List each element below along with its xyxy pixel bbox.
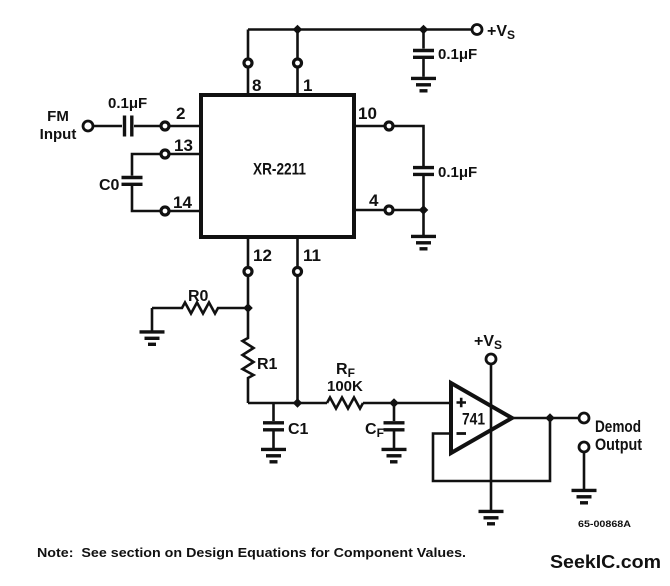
capacitor 0.1uF input coupling: [125, 116, 132, 137]
pin label 14: [173, 193, 192, 212]
resistor R1: [243, 308, 254, 403]
label +Vs top right: [487, 23, 515, 42]
pin label 11: [303, 246, 321, 265]
label Demod Output: [595, 417, 642, 454]
op-amp minus symbol: [457, 432, 467, 435]
pin label 12: [253, 246, 272, 265]
ground below right cap: [411, 210, 436, 249]
pin label 4: [369, 191, 379, 210]
wire pin 8 to top rail: [244, 30, 252, 96]
svg-text:0.1μF: 0.1μF: [108, 95, 147, 112]
svg-text:1: 1: [303, 76, 312, 95]
label RF: [336, 361, 355, 380]
svg-text:R1: R1: [257, 356, 278, 373]
node junction R0/R1/pin12: [243, 303, 253, 312]
node junction pin11/bus: [293, 398, 303, 407]
svg-text:Input: Input: [40, 126, 77, 143]
value label 0.1uF (right): [438, 164, 477, 181]
capacitor CF: [384, 403, 405, 448]
wire +Vs through op-amp to ground: [490, 365, 493, 511]
svg-text:0.1μF: 0.1μF: [438, 164, 477, 181]
label +Vs op-amp: [474, 333, 502, 352]
svg-text:11: 11: [303, 246, 321, 265]
svg-text:XR-2211: XR-2211: [253, 160, 306, 179]
terminal +Vs op-amp: [486, 354, 496, 364]
node junction pin4/cap: [419, 205, 429, 214]
pin label 8: [252, 76, 261, 95]
wire output terminal to ground: [583, 453, 586, 490]
svg-text:C0: C0: [99, 177, 120, 194]
value label 100K: [327, 378, 363, 395]
label CF: [365, 421, 384, 440]
svg-text:13: 13: [174, 136, 193, 155]
svg-text:14: 14: [173, 193, 192, 212]
ground at output: [572, 490, 597, 502]
label C1: [288, 421, 309, 438]
label 741: [462, 410, 485, 429]
SeekIC.com watermark: [550, 551, 661, 572]
pin label 2: [176, 104, 185, 123]
capacitor C1: [263, 403, 284, 448]
wire feedback loop: [433, 418, 550, 481]
node junction output/feedback: [545, 413, 555, 422]
terminal FM input: [83, 121, 93, 131]
svg-text:0.1μF: 0.1μF: [438, 46, 477, 63]
wire op-amp output: [512, 417, 579, 420]
label XR-2211: [253, 160, 306, 179]
note text: [37, 546, 466, 560]
node junction CF/bus: [389, 398, 399, 407]
svg-text:8: 8: [252, 76, 261, 95]
wire pin 10: [354, 122, 424, 166]
svg-text:12: 12: [253, 246, 272, 265]
capacitor 0.1uF supply bypass (top right): [413, 30, 434, 77]
capacitor C0: [122, 178, 143, 185]
ground below C1: [261, 449, 286, 461]
pin label 1: [303, 76, 312, 95]
terminal demod output: [579, 413, 589, 423]
terminal output ground reference: [579, 442, 589, 452]
pin label 10: [358, 104, 377, 123]
ground below top bypass cap: [411, 78, 436, 90]
wire pin 13: [132, 150, 201, 176]
wire coupling cap to pin 2: [134, 122, 201, 130]
wire top supply rail: [248, 28, 471, 31]
label R1: [257, 356, 278, 373]
svg-text:100K: 100K: [327, 378, 363, 395]
op-amp U1 XR-2211 box: [201, 95, 354, 237]
svg-text:741: 741: [462, 410, 485, 429]
wire C0 to pin 14: [132, 186, 201, 215]
svg-text:10: 10: [358, 104, 377, 123]
svg-text:C1: C1: [288, 421, 309, 438]
wire pin 11: [294, 237, 302, 403]
wire bottom bus to op-amp: [248, 402, 451, 405]
svg-text:4: 4: [369, 191, 379, 210]
wire pin 4: [354, 206, 424, 214]
value label 0.1uF (input): [108, 95, 147, 112]
svg-text:FM: FM: [47, 108, 69, 125]
node junction top rail at pin 1 branch: [293, 25, 303, 34]
label R0: [188, 288, 209, 305]
op-amp plus symbol: [457, 398, 467, 407]
svg-text:R0: R0: [188, 288, 209, 305]
ground at R0: [140, 308, 165, 344]
node junction top rail at bypass cap branch: [419, 25, 429, 34]
label FM Input: [40, 108, 77, 143]
pin label 13: [174, 136, 193, 155]
svg-text:2: 2: [176, 104, 185, 123]
svg-text:SeekIC.com: SeekIC.com: [550, 551, 661, 572]
svg-text:65-00868A: 65-00868A: [578, 519, 631, 530]
value label 0.1uF (top): [438, 46, 477, 63]
svg-text:Note: See section on Design E: Note: See section on Design Equations fo…: [37, 546, 466, 560]
svg-text:Demod: Demod: [595, 417, 641, 436]
resistor RF: [327, 398, 363, 409]
wire pin 1 to top rail: [294, 30, 302, 96]
wire pin 12: [244, 237, 252, 308]
ground below op-amp: [479, 511, 504, 523]
capacitor 0.1uF (right side): [413, 168, 434, 210]
label 65-00868A: [578, 519, 631, 530]
svg-text:Output: Output: [595, 435, 642, 454]
label C0: [99, 177, 120, 194]
op-amp U2 741 triangle: [451, 383, 512, 453]
ground below CF: [382, 449, 407, 461]
terminal +Vs top right: [472, 25, 482, 35]
wire FM input to coupling cap: [94, 125, 123, 128]
resistor R0: [152, 303, 248, 314]
